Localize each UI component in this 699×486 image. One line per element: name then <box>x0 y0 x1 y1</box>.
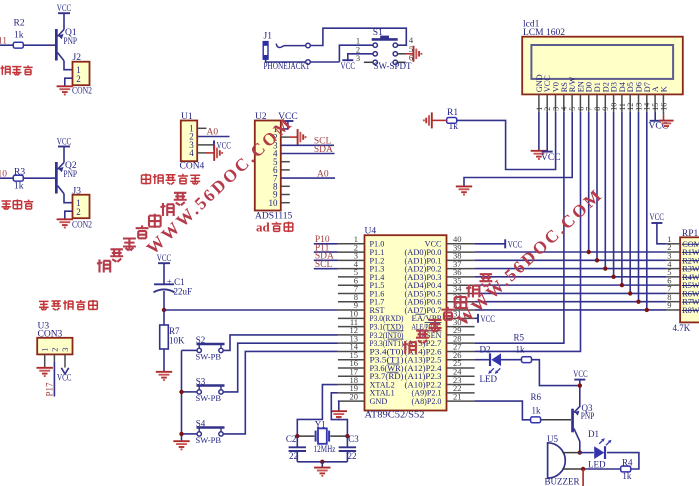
ground (J2) <box>57 85 73 87</box>
svg-text:CON2: CON2 <box>72 87 92 97</box>
svg-text:3: 3 <box>61 348 70 352</box>
wire D1 to R4 <box>607 453 639 469</box>
pin U4.29 <box>447 334 475 336</box>
svg-text:PHONEJACK1: PHONEJACK1 <box>264 62 310 72</box>
pin U4.15 <box>338 359 365 361</box>
svg-text:CON4: CON4 <box>180 162 205 172</box>
pin U4.1 <box>338 243 365 245</box>
svg-text:21: 21 <box>453 391 462 401</box>
svg-text:GND: GND <box>370 397 388 406</box>
pin U4.16 <box>338 367 365 369</box>
junction node P0.3 / D3 <box>611 275 615 279</box>
wire U4.20 GND <box>337 400 340 402</box>
wire to ground (off-page) <box>582 469 584 486</box>
svg-text:4.7K: 4.7K <box>673 323 691 333</box>
wire S4 to U4.14 T0 <box>182 433 197 435</box>
pin U1.1 stub <box>197 127 206 129</box>
svg-text:J1: J1 <box>264 32 273 42</box>
wire J3 pin2 to ground <box>65 211 73 219</box>
ground (U1.4, sideways) <box>213 145 215 161</box>
wire S3 to U4.13 INT1 <box>182 391 197 393</box>
pin U4.38 <box>447 259 475 261</box>
ground (U2.2, sideways) <box>297 129 299 145</box>
svg-text:CON2: CON2 <box>72 221 92 231</box>
power VCC (U4.31 EA) <box>475 317 478 319</box>
pin U4.26 <box>447 359 475 361</box>
svg-text:R6: R6 <box>531 392 542 402</box>
power VCC (U4.40) <box>475 243 505 245</box>
watermark 2 Chinese <box>403 341 417 354</box>
pin U4.6 <box>338 284 365 286</box>
svg-text:2: 2 <box>50 348 59 352</box>
ground (crystal) <box>314 467 330 469</box>
pin U2.1 to VCC <box>281 121 288 129</box>
pin U4.7 <box>338 292 365 294</box>
junction node P0.7 / D7 <box>645 308 649 312</box>
svg-text:10K: 10K <box>169 336 185 346</box>
svg-text:R7: R7 <box>169 326 180 336</box>
svg-text:22uF: 22uF <box>174 287 193 297</box>
junction node XTAL2/C2 <box>295 434 299 438</box>
svg-text:LED: LED <box>480 374 498 384</box>
wire Q2 collector to J3 <box>64 194 73 203</box>
svg-text:9: 9 <box>667 300 671 310</box>
wires LCD D0-D7 down to P0 bus <box>588 112 590 252</box>
junction node buzzer gnd <box>581 467 585 471</box>
pin U4.10 <box>338 317 365 319</box>
wire LCD pin2 VCC <box>546 112 548 152</box>
pin U4.31 <box>447 317 475 319</box>
wire net P17 (U3.2) <box>53 354 55 362</box>
pin U4.23 <box>447 384 475 386</box>
power VCC (LCD.15) <box>650 120 661 122</box>
wire J2 pin2 to ground <box>65 78 73 86</box>
ground (S1.5, sideways) <box>413 46 415 62</box>
power VCC (U2.1) <box>282 120 293 122</box>
pin U1.3 to VCC <box>197 144 213 146</box>
ground (LCD.1) <box>531 150 547 152</box>
pin U4.28 <box>447 342 475 344</box>
wire crystal bottom rail <box>297 461 347 463</box>
svg-text:20: 20 <box>350 391 359 401</box>
wire LCD pin1 GND <box>538 112 540 151</box>
pin U4.25 <box>447 367 475 369</box>
power VCC (LCD.2) <box>542 151 553 153</box>
junction node Q3 emitter VCC <box>578 383 582 387</box>
pin U4.12 <box>338 334 365 336</box>
transistor Q1 <box>55 29 58 61</box>
svg-text:K: K <box>659 86 668 92</box>
pin U4.32 <box>447 309 475 311</box>
svg-text:A0: A0 <box>317 169 329 179</box>
pin U4.37 <box>447 268 475 270</box>
pin U4.14 <box>338 350 365 352</box>
svg-text:VCC: VCC <box>57 374 72 384</box>
wire U4.26 P2.5 to D2 <box>475 359 490 361</box>
svg-text:R2: R2 <box>14 19 25 29</box>
power VCC (RP1 COM) <box>651 222 662 224</box>
wire LCD pin5 R/W to ground <box>464 112 572 187</box>
wire J1 sleeve <box>266 59 306 62</box>
wire buzzer bottom pin <box>562 468 583 470</box>
label vent valve (Chinese) <box>0 66 10 75</box>
wire net SDA (U2.4) <box>281 153 335 155</box>
wire net P10 (U4.1) <box>314 243 338 245</box>
transistor Q2 <box>55 162 58 194</box>
wire RST to C1/R7 <box>164 309 338 311</box>
wire LCD pin16 K to ground <box>663 112 665 115</box>
watermark 1 Chinese <box>97 260 111 273</box>
wire net SCL (U4.4) <box>314 268 338 270</box>
wire J1 tip to S1 pin4 <box>310 28 406 45</box>
junction node P0.0 / D0 <box>587 250 591 254</box>
pin U4.33 <box>447 301 475 303</box>
pin U1.4 to ground <box>197 152 206 154</box>
svg-text:SW-PB: SW-PB <box>196 435 222 445</box>
junction node RST <box>162 308 166 312</box>
svg-text:P17: P17 <box>45 382 55 397</box>
svg-text:2: 2 <box>76 207 81 217</box>
pin U4.4 <box>338 268 365 270</box>
svg-text:LED: LED <box>588 459 606 469</box>
svg-text:A0: A0 <box>207 128 219 138</box>
svg-text:R5: R5 <box>514 333 525 343</box>
power VCC (S1.2) <box>342 59 353 61</box>
capacitor C1 22uF <box>163 263 165 284</box>
svg-text:PNP: PNP <box>64 37 78 47</box>
svg-text:C3: C3 <box>348 434 359 444</box>
svg-text:SDA: SDA <box>314 145 333 155</box>
pin U4.8 <box>338 301 365 303</box>
pin U4.19 <box>338 392 365 394</box>
svg-text:16: 16 <box>659 103 668 111</box>
wire XTAL1 to crystal <box>331 393 347 436</box>
svg-text:C2: C2 <box>286 434 297 444</box>
svg-text:SW-SPDT: SW-SPDT <box>374 61 412 71</box>
junction node P0.4 / D4 <box>620 283 624 287</box>
pin U4.9 <box>338 309 365 311</box>
diode D2 LED <box>489 353 491 366</box>
pin U4.36 <box>447 276 475 278</box>
wire switch common rail <box>181 350 183 441</box>
svg-text:VCC: VCC <box>341 62 356 72</box>
junction node P0.1 / D1 <box>595 258 599 262</box>
pin U4.5 <box>338 276 365 278</box>
junction node P0.2 / D2 <box>603 266 607 270</box>
ground (switch rail) <box>173 440 189 442</box>
ground (R1, sideways) <box>431 112 433 128</box>
wire Q1 collector to J2 <box>64 61 73 70</box>
pin U4.2 <box>338 251 365 253</box>
junction node Q3 collector <box>578 450 582 454</box>
svg-text:1k: 1k <box>14 182 24 192</box>
svg-text:12MHz: 12MHz <box>314 444 336 454</box>
pin U4.34 <box>447 292 475 294</box>
svg-text:BUZZER: BUZZER <box>545 477 580 486</box>
pin U2.8 stub <box>281 185 290 187</box>
pin U4.3 <box>338 259 365 261</box>
pin U4.18 <box>338 384 365 386</box>
svg-text:1k: 1k <box>532 405 542 415</box>
wire LCD pin6 EN to P2.6 <box>475 112 581 352</box>
svg-text:10: 10 <box>269 198 279 208</box>
svg-text:D1: D1 <box>588 429 599 439</box>
svg-text:2: 2 <box>76 74 81 84</box>
pin U4.17 <box>338 375 365 377</box>
ground (R7) <box>156 371 172 373</box>
wire LCD pin3 V0 to R1 <box>457 112 556 170</box>
wire net A0 (U2.7) <box>281 177 335 179</box>
junction node XTAL1/C3 <box>345 434 349 438</box>
wire R5 to VCC node <box>532 360 580 386</box>
wires P0.0-P0.7 bus to RP1 <box>475 251 667 253</box>
svg-text:22: 22 <box>348 451 357 461</box>
svg-text:SW-PB: SW-PB <box>196 352 222 362</box>
wire XTAL2 to crystal <box>297 385 338 437</box>
svg-text:SCL: SCL <box>315 260 333 270</box>
transistor Q3 <box>571 409 574 433</box>
ground (U4.20) <box>331 410 347 412</box>
svg-text:SW-PB: SW-PB <box>196 393 222 403</box>
pin U4.35 <box>447 284 475 286</box>
ground (J3) <box>57 218 73 220</box>
pin U4.13 <box>338 342 365 344</box>
wire U4.21 P2.0 to R6 <box>475 401 531 420</box>
pin U4.24 <box>447 375 475 377</box>
svg-text:(A8)P2.0: (A8)P2.0 <box>412 397 442 406</box>
pin U4.27 <box>447 350 475 352</box>
wire S2 to U4.12 INT0 <box>182 349 197 351</box>
wire R1 to ground <box>432 119 447 121</box>
wire LCD pin15 A to VCC <box>654 112 656 121</box>
pin S1.5 to ground <box>398 53 406 55</box>
pin S1.6 stub <box>398 61 406 63</box>
label temperature sensor (Chinese) <box>39 301 49 310</box>
junction node P0.6 / D6 <box>636 299 640 303</box>
ground (LCD.16) <box>659 120 673 122</box>
resistor R7 10K <box>163 310 165 325</box>
wire P10 to Q2 base <box>0 177 13 179</box>
pin U3.3 to VCC <box>64 354 66 367</box>
wire J1 sleeve to S1 pin1 <box>310 61 339 63</box>
svg-text:ad: ad <box>256 220 271 235</box>
power VCC (U3.3) <box>61 368 68 374</box>
junction node crystal gnd <box>320 460 324 464</box>
junction node S4 common <box>179 432 183 436</box>
svg-text:4: 4 <box>189 148 194 158</box>
pin U3.1 to ground <box>44 354 46 367</box>
wire net SCL (U2.3) <box>281 144 334 146</box>
svg-text:1k: 1k <box>516 345 526 355</box>
ground (U3.1) <box>37 367 53 369</box>
resistor R5 1k <box>501 359 521 361</box>
wire RP1 COM to VCC <box>657 223 667 244</box>
pin U4.30 <box>447 326 475 328</box>
pin U4.21 <box>447 400 475 402</box>
pin U2.10 stub <box>281 202 290 204</box>
junction node P0.5 / D5 <box>628 291 632 295</box>
label pressure sensor (Chinese) <box>142 174 151 185</box>
pin U4.40 <box>447 243 475 245</box>
svg-text:VCC: VCC <box>217 141 232 151</box>
svg-text:VCC: VCC <box>541 153 561 163</box>
junction node S3 common <box>179 390 183 394</box>
ground (R/W) <box>456 185 472 187</box>
wire net P11 (U4.2) <box>314 251 338 253</box>
svg-text:VCC: VCC <box>481 315 496 325</box>
wire net A0 (U1.2) <box>197 136 229 138</box>
svg-text:1k: 1k <box>14 31 24 41</box>
svg-text:VCC: VCC <box>650 213 665 223</box>
svg-text:AT89C52/S52: AT89C52/S52 <box>365 410 425 420</box>
wire S1 pin2 to VCC <box>348 54 373 60</box>
svg-text:D2: D2 <box>480 344 491 354</box>
pin U2.2 to ground <box>281 136 290 138</box>
pin U2.9 stub <box>281 194 290 196</box>
pin U4.22 <box>447 392 475 394</box>
svg-text:1: 1 <box>41 348 50 352</box>
diode D1 LED <box>580 452 594 454</box>
pin U2.5 stub <box>281 161 290 163</box>
wire net SDA (U4.3) <box>314 259 338 261</box>
svg-text:PNP: PNP <box>581 411 595 421</box>
wire P11 to Q1 base <box>0 44 13 46</box>
pin U4.20 <box>338 400 365 402</box>
wire buzzer top pin <box>562 452 579 454</box>
svg-text:VCC: VCC <box>508 240 523 250</box>
pin U2.6 stub <box>281 169 290 171</box>
wire LCD pin4 RS to P2.7 <box>475 112 564 344</box>
pin U4.39 <box>447 251 475 253</box>
svg-text:R1: R1 <box>447 108 458 118</box>
pin U4.11 <box>338 326 365 328</box>
svg-text:PNP: PNP <box>64 170 78 180</box>
pin S1.3 stub <box>364 61 373 63</box>
